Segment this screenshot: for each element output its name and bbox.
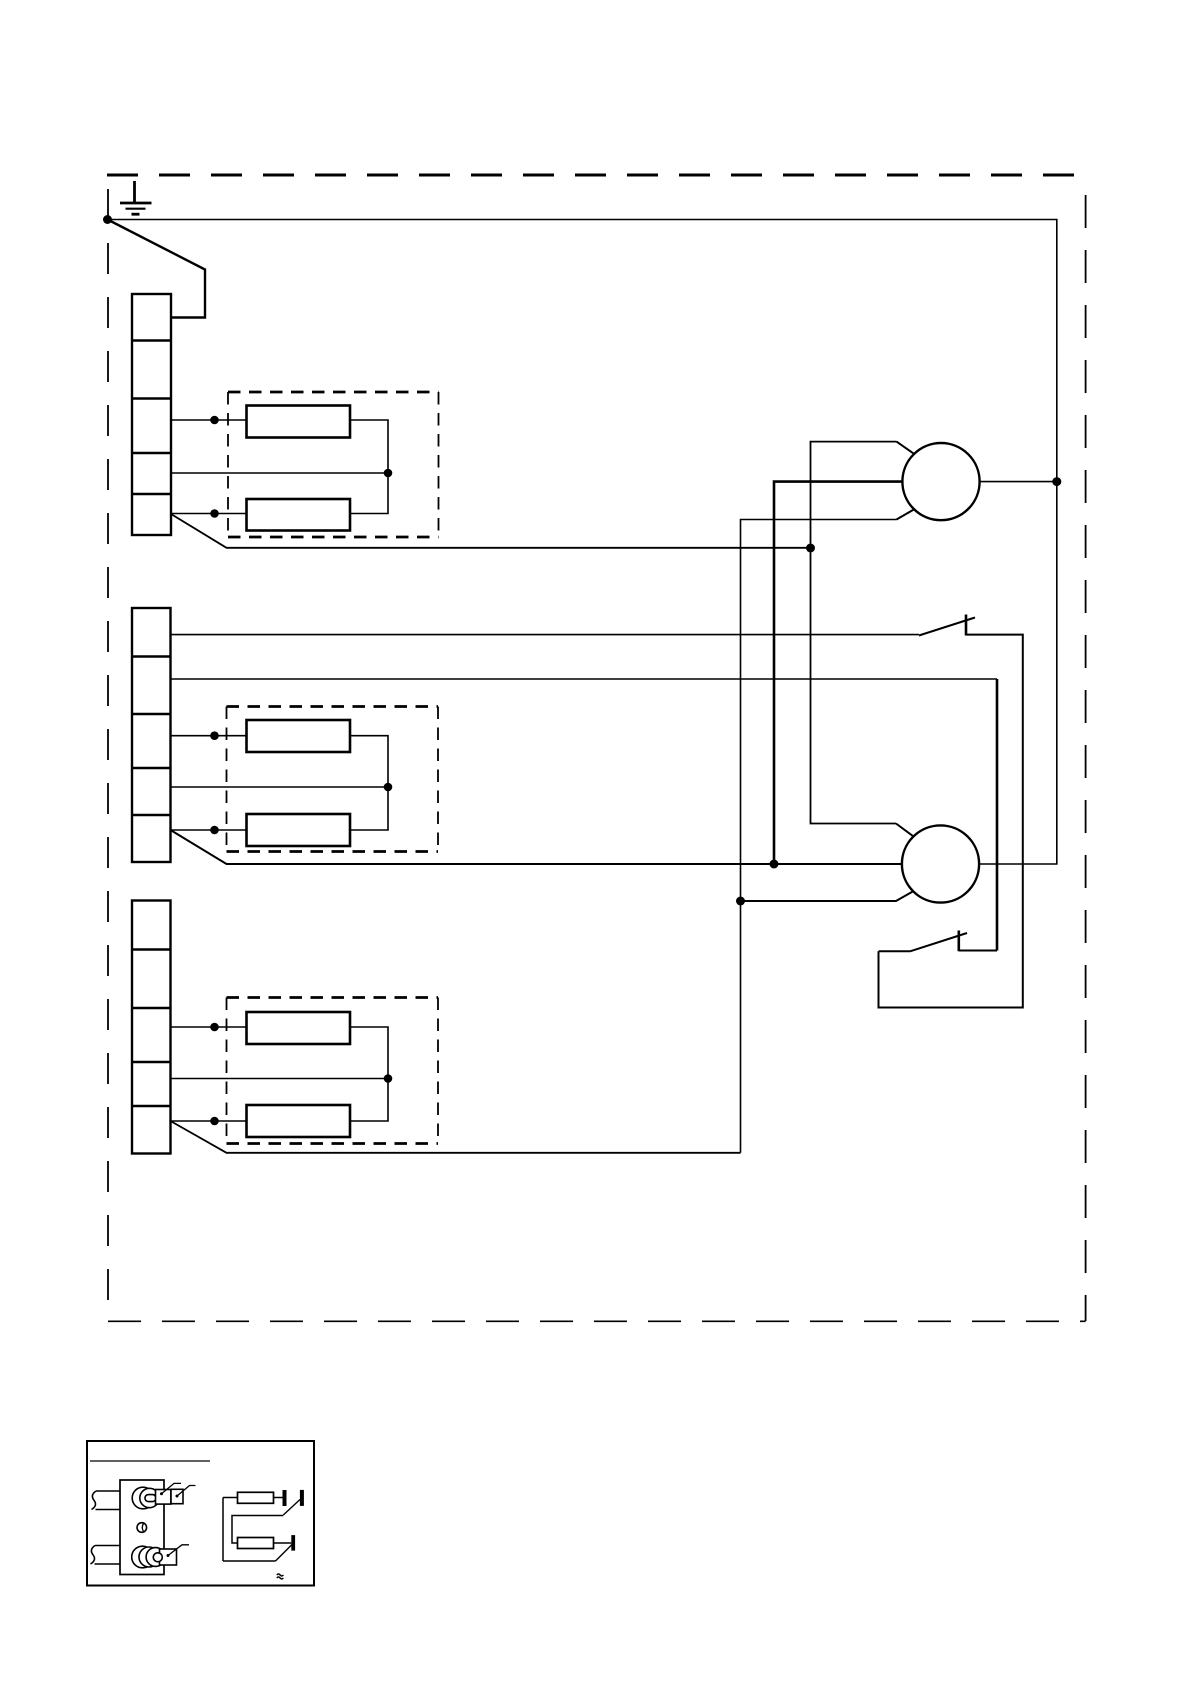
wire blade A to resistor RB [232, 1516, 283, 1544]
node B junction riser V with M2 middle lead [770, 860, 779, 869]
wire R1/R2 outputs join [350, 420, 388, 514]
wire J3 common to riser [171, 1121, 741, 1153]
contact bar 2 [300, 1490, 304, 1506]
switch S1 [919, 615, 975, 636]
wire M2 top lead diagonal [896, 824, 913, 837]
motor M2 [902, 825, 979, 902]
wire M2 bottom lead [741, 891, 914, 901]
wire ground bus: top run, right drop and motor M2 right lead [108, 220, 1057, 865]
node A junction on riser U [806, 544, 815, 553]
node motor M1 right lead junction [1052, 477, 1061, 486]
node R5/R6 junction with J3 pin4 [384, 1074, 393, 1083]
node J3 pin5 junction [210, 1117, 219, 1126]
wire R3/R4 outputs join [350, 736, 388, 830]
resistor RB [238, 1538, 274, 1549]
wire J1 pin1 to ground node [108, 220, 206, 318]
resistor R1 [247, 406, 351, 438]
wire lead-in top [92, 1491, 121, 1510]
wire J1 pin3 [171, 419, 247, 421]
leader line terminal 2 [177, 1486, 196, 1497]
wire riser phase U (motors top leads) [811, 442, 897, 824]
node GND junction [103, 215, 112, 224]
contact bar 3 [291, 1535, 295, 1551]
wire J3 pin3 [171, 1026, 247, 1028]
leader line terminal 1 [162, 1483, 182, 1493]
heater pack 2 dashed box [227, 707, 439, 852]
outer enclosure dashed border [107, 175, 1086, 1321]
ground [120, 181, 152, 214]
thermostat bottom terminal [132, 1546, 177, 1568]
heater pack 1 dashed box [228, 392, 439, 537]
heater pack 3 dashed box [227, 998, 439, 1144]
resistor R4 [247, 814, 351, 846]
thermostat body [120, 1480, 164, 1575]
wire J1 pin4 [171, 472, 388, 474]
wire J3 pin5 [171, 1120, 247, 1122]
blade thermal switch A [283, 1500, 300, 1516]
wire RB to contact [274, 1542, 292, 1544]
resistor R3 [247, 720, 351, 752]
node J2 pin5 junction [210, 826, 219, 835]
wire J2 pin1 to switch S1 input [171, 634, 920, 636]
resistor RA [238, 1492, 274, 1503]
blade thermal switch B [276, 1545, 293, 1562]
wire J1 pin5 [171, 513, 247, 515]
node R3/R4 junction with J2 pin4 [384, 783, 393, 792]
wire S2 output up and back to J2 pin2 [959, 950, 997, 952]
title rule [90, 1460, 210, 1462]
node R1/R2 junction with pin4 [384, 469, 393, 478]
mini schematic: left bus [222, 1498, 224, 1562]
wire J2 pin5 [171, 829, 247, 831]
wire S1 output loop to S2 input [879, 635, 1023, 1008]
wire J1 common to node A [171, 514, 811, 548]
contact bar 1 [283, 1490, 287, 1506]
mounting hole [137, 1523, 147, 1533]
wire J3 pin4 [171, 1078, 389, 1080]
wire R5/R6 outputs join [350, 1027, 388, 1121]
detail inset box [87, 1441, 314, 1586]
leader line terminal 3 [168, 1545, 189, 1556]
wire M1 top lead diagonal [897, 442, 914, 454]
connector J3 [132, 901, 171, 1154]
wire to resistor RA [223, 1497, 238, 1499]
connector J1 [132, 294, 171, 535]
approx symbol [277, 1574, 284, 1579]
resistor R6 [247, 1105, 351, 1137]
connector J2 [132, 608, 171, 862]
wire RA to contact [274, 1497, 283, 1499]
wire lead-in bottom [91, 1546, 121, 1565]
motor M1 [902, 443, 979, 520]
resistor R5 [247, 1012, 351, 1044]
wire riser phase V (motors middle leads) [774, 482, 903, 864]
node J2 pin3 junction [210, 731, 219, 740]
node C junction riser W with M2 bottom lead [736, 897, 745, 906]
wire J2 common to motor M2 middle lead [171, 830, 903, 864]
wire riser phase W (motors bottom leads) [741, 520, 897, 1153]
node J3 pin3 junction [210, 1023, 219, 1032]
thermostat top terminal [132, 1487, 183, 1509]
node J1 pin3 junction [210, 416, 219, 425]
switch S2 [879, 931, 968, 952]
wire M1 bottom lead diagonal [897, 510, 914, 520]
wire bottom bus [223, 1560, 276, 1562]
wire motor M1 right lead [980, 481, 1057, 483]
wire J2 pin4 [171, 786, 389, 788]
resistor R2 [247, 499, 351, 531]
node J1 pin5 junction [210, 509, 219, 518]
wire J2 pin3 [171, 735, 247, 737]
